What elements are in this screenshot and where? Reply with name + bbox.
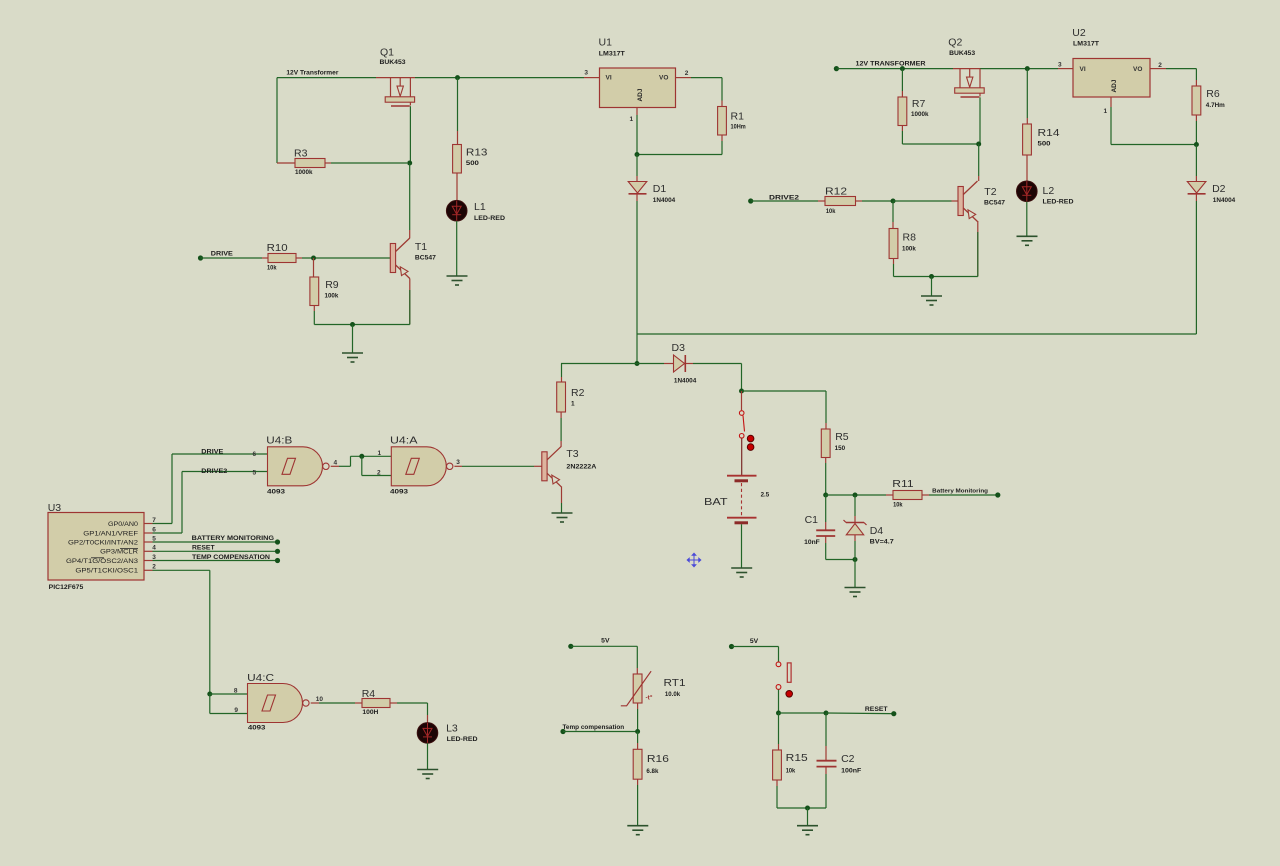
svg-text:DRIVE: DRIVE <box>211 252 233 258</box>
wire U4:C out to R4 <box>311 702 319 704</box>
svg-text:10: 10 <box>316 696 324 703</box>
node junction D4 <box>853 493 858 498</box>
resistor R6 4.7Hm <box>1192 86 1201 115</box>
node junction RT1/R16 <box>635 729 640 734</box>
svg-text:LED-RED: LED-RED <box>474 215 505 222</box>
svg-text:RESET: RESET <box>865 707 888 713</box>
svg-text:3: 3 <box>584 70 588 77</box>
svg-text:10k: 10k <box>267 264 277 271</box>
svg-text:R2: R2 <box>571 387 585 399</box>
wire U4:A out to T3 base <box>454 465 462 467</box>
pin 1 U1 ADJ <box>636 108 638 116</box>
svg-text:4.7Hm: 4.7Hm <box>1206 102 1225 109</box>
battery BAT 2.5 <box>727 475 757 477</box>
wire U3 pin2 down to U4:C <box>153 569 210 571</box>
wire R14 to L2 <box>1026 155 1028 181</box>
svg-text:R12: R12 <box>825 186 847 198</box>
svg-text:U4:C: U4:C <box>247 672 274 684</box>
ground under L1 <box>447 276 468 285</box>
svg-text:U1: U1 <box>599 37 613 49</box>
svg-text:R3: R3 <box>294 147 308 159</box>
button reset switch <box>776 662 781 667</box>
svg-text:D3: D3 <box>672 342 686 354</box>
wire D3 cathode to battery branch <box>686 363 693 365</box>
wire L3 to ground <box>427 743 429 769</box>
svg-text:10nF: 10nF <box>804 539 820 546</box>
svg-text:BUK453: BUK453 <box>380 59 406 66</box>
overline MCLR <box>120 548 138 550</box>
svg-text:R14: R14 <box>1038 127 1060 139</box>
wire node to D2 <box>1195 145 1197 177</box>
svg-text:7: 7 <box>152 517 156 524</box>
svg-text:DRIVE2: DRIVE2 <box>201 469 228 475</box>
node junction U4:C inputs <box>207 692 212 697</box>
pin 4 U3 GP3/MCLR <box>144 550 153 552</box>
pin 2 U3 GP5/T1CKI/OSC1 <box>144 569 153 571</box>
svg-text:GP4/T1G/OSC2/AN3: GP4/T1G/OSC2/AN3 <box>66 559 139 565</box>
svg-text:2: 2 <box>1158 62 1162 69</box>
transistor T1 BC547 <box>390 244 395 273</box>
wire base T2 <box>893 200 952 202</box>
node junction R12/R8 <box>891 199 896 204</box>
wire RT1 to node <box>637 703 639 709</box>
terminal DRIVE <box>198 255 203 260</box>
svg-text:3: 3 <box>456 459 460 466</box>
svg-text:2.5: 2.5 <box>761 492 770 499</box>
wire node row to R11 <box>826 494 886 496</box>
svg-text:C2: C2 <box>841 753 855 765</box>
LED L3 LED-RED <box>417 723 438 744</box>
diode D3 1N4004 <box>674 355 685 372</box>
wire L2 to ground <box>1026 202 1028 236</box>
svg-text:4093: 4093 <box>267 488 285 495</box>
svg-text:U4:A: U4:A <box>390 434 418 446</box>
svg-text:BUK453: BUK453 <box>949 50 975 57</box>
svg-text:R7: R7 <box>912 98 926 110</box>
svg-text:10k: 10k <box>786 767 796 774</box>
svg-text:5: 5 <box>152 535 156 542</box>
svg-text:R15: R15 <box>786 752 808 764</box>
node junction mid D1/R2/D3 <box>635 361 640 366</box>
wire U4:C input 8 <box>210 693 248 695</box>
wire node to C2 node <box>779 712 827 714</box>
svg-text:RESET: RESET <box>192 545 215 551</box>
svg-text:1000k: 1000k <box>295 169 313 176</box>
wire to ground D4 <box>854 560 856 588</box>
pin 6 U3 GP1/AN1/VREF <box>144 532 153 534</box>
wire battery to ground <box>741 524 743 567</box>
svg-text:6: 6 <box>253 451 257 458</box>
svg-text:8: 8 <box>234 688 238 695</box>
node junction ground D4 <box>853 557 858 562</box>
wire U4:C input 9 <box>209 694 211 714</box>
svg-text:5V: 5V <box>601 638 609 644</box>
wire Q1 gate to junction <box>409 106 411 163</box>
svg-text:LED-RED: LED-RED <box>1043 198 1074 205</box>
svg-text:2: 2 <box>685 70 689 77</box>
resistor R8 100k <box>892 201 894 222</box>
svg-text:GP3/MCLR: GP3/MCLR <box>100 550 139 556</box>
node junction R5/C1 <box>823 493 828 498</box>
op-amp U3 PIC12F675 box <box>48 513 144 581</box>
wire U3 pin3 TEMP COMPENSATION <box>153 560 278 562</box>
svg-text:L2: L2 <box>1043 185 1055 197</box>
svg-text:2: 2 <box>152 564 156 571</box>
wire U4:B out to U4:A inputs <box>331 465 339 467</box>
wire R7 to Q2 gate <box>902 143 980 145</box>
svg-text:3: 3 <box>1058 62 1062 69</box>
svg-text:GP5/T1CKI/OSC1: GP5/T1CKI/OSC1 <box>75 569 138 575</box>
wire 5V to button <box>732 646 779 648</box>
svg-text:1: 1 <box>1104 108 1108 115</box>
pin 2 U2 <box>1150 68 1166 70</box>
svg-text:VI: VI <box>606 75 612 82</box>
svg-text:T3: T3 <box>566 448 578 460</box>
svg-text:R8: R8 <box>903 232 917 244</box>
switch battery (open) <box>741 391 743 410</box>
svg-text:GP0/AN0: GP0/AN0 <box>108 522 139 528</box>
svg-text:R6: R6 <box>1206 88 1220 100</box>
pin 3 U3 GP4/T1G/OSC2/AN3 <box>144 560 153 562</box>
svg-text:Battery Monitoring: Battery Monitoring <box>932 488 988 494</box>
svg-text:4: 4 <box>152 545 156 552</box>
terminal TEMP COMPENSATION <box>275 558 280 563</box>
wire button to node <box>778 690 780 713</box>
node junction ground rail <box>805 806 810 811</box>
svg-text:R11: R11 <box>892 478 913 490</box>
terminal 5V right <box>729 644 734 649</box>
svg-text:VO: VO <box>659 75 668 82</box>
svg-text:DRIVE: DRIVE <box>201 450 223 456</box>
resistor R3 1000k <box>277 162 295 164</box>
terminal RESET <box>275 549 280 554</box>
wire gate node to T2 <box>978 144 980 176</box>
op-amp U2 LM317T box <box>1073 59 1150 98</box>
wire VO to R6 <box>1166 68 1196 70</box>
ground under L3 <box>417 770 438 779</box>
svg-text:BV=4.7: BV=4.7 <box>870 539 894 546</box>
wire to ground T2 <box>931 277 933 296</box>
wire junction to D3 <box>637 363 664 365</box>
wire junction to R5 <box>742 390 827 392</box>
wire U3 pin6 to DRIVE2 <box>153 532 183 534</box>
node junction C2 <box>824 711 829 716</box>
terminal BATTERY MONITORING <box>275 539 280 544</box>
resistor R13 500 <box>453 145 462 174</box>
ground under T2 <box>921 296 942 305</box>
wire gate node down to T1 collector <box>409 163 411 230</box>
terminal RESET right <box>891 711 896 716</box>
svg-text:ADJ: ADJ <box>637 88 644 101</box>
resistor R4 100R <box>362 699 390 708</box>
wire top node to R13 <box>455 75 460 80</box>
transistor Q2 BUK453 <box>959 69 961 88</box>
svg-text:1: 1 <box>630 116 634 123</box>
terminal 5V mid <box>568 644 573 649</box>
node junction R6/D2 <box>1194 142 1199 147</box>
svg-text:1: 1 <box>378 450 382 457</box>
wire T2 emitter down <box>977 221 979 277</box>
svg-text:R1: R1 <box>731 111 745 123</box>
node junction R3/Q1 <box>407 161 412 166</box>
svg-text:6.8k: 6.8k <box>646 768 658 775</box>
terminal Temp compensation <box>560 729 565 734</box>
svg-text:1N4004: 1N4004 <box>674 377 697 384</box>
op-amp U4:C 4093 <box>248 684 303 723</box>
wire D2 down to mid bus <box>1195 194 1197 201</box>
svg-text:R5: R5 <box>835 431 849 443</box>
svg-text:BC547: BC547 <box>984 199 1005 206</box>
svg-text:LM317T: LM317T <box>1073 41 1099 48</box>
svg-text:LED-RED: LED-RED <box>447 736 478 743</box>
svg-text:RT1: RT1 <box>664 677 686 689</box>
resistor R2 1 <box>561 364 563 378</box>
svg-text:-t°: -t° <box>646 694 653 702</box>
LED L1 LED-RED <box>446 200 467 221</box>
svg-text:Q2: Q2 <box>948 36 962 48</box>
svg-text:C1: C1 <box>805 514 819 526</box>
svg-text:ADJ: ADJ <box>1111 79 1118 92</box>
ground under T1 <box>342 353 363 362</box>
svg-text:R4: R4 <box>362 688 376 700</box>
svg-text:500: 500 <box>1038 141 1051 148</box>
wire L1 to ground <box>456 221 458 276</box>
node junction R14 <box>1025 66 1030 71</box>
wire R13 to L1 <box>456 173 458 201</box>
svg-text:R10: R10 <box>267 242 288 254</box>
svg-text:12V Transformer: 12V Transformer <box>286 71 339 77</box>
transistor T2 BC547 <box>958 187 963 216</box>
node junction R10/R9 <box>311 256 316 261</box>
svg-text:150: 150 <box>835 445 846 452</box>
wire bottom rail R8/T2 <box>894 276 978 278</box>
ground under C1/D4 <box>845 588 866 597</box>
net 12V Transformer wire <box>277 77 376 79</box>
wire VO to R1 <box>691 77 722 79</box>
wire U3 pin4 RESET <box>153 550 278 552</box>
svg-text:12V TRANSFORMER: 12V TRANSFORMER <box>856 61 927 67</box>
pin 5 U3 GP2/T0CKI/INT/AN2 <box>144 541 153 543</box>
svg-text:Temp compensation: Temp compensation <box>563 725 625 731</box>
svg-text:4093: 4093 <box>390 488 408 495</box>
svg-text:100nF: 100nF <box>841 767 861 774</box>
wire DRIVE2 to R12 <box>751 200 818 202</box>
svg-text:L1: L1 <box>474 201 486 213</box>
wire to RESET terminal <box>826 712 894 715</box>
wire T1 emitter to bottom rail <box>409 279 411 325</box>
resistor R14 500 <box>1026 69 1028 118</box>
diode D2 1N4004 <box>1187 182 1206 194</box>
resistor R10 10k <box>268 254 296 263</box>
svg-text:6: 6 <box>152 526 156 533</box>
ground under battery <box>731 568 752 577</box>
overline T1G <box>91 557 104 559</box>
resistor R5 150 <box>821 429 830 458</box>
op-amp U1 LM317T box <box>600 68 676 108</box>
wire Q2 gate down <box>979 97 981 144</box>
pin 7 U3 GP0/AN0 <box>144 523 153 525</box>
node junction ADJ/R1/D1 <box>635 152 640 157</box>
wire to ground <box>807 808 809 825</box>
svg-text:BATTERY MONITORING: BATTERY MONITORING <box>192 536 275 542</box>
ground under R15/C2 <box>797 826 818 835</box>
node junction bottom rail T2 <box>929 274 934 279</box>
wire U3 pin5 BATTERY MONITORING <box>153 541 278 543</box>
svg-text:5V: 5V <box>750 639 758 645</box>
svg-text:1N4004: 1N4004 <box>653 197 676 204</box>
wire to ground <box>352 325 354 353</box>
svg-text:VO: VO <box>1133 66 1142 73</box>
svg-text:2N2222A: 2N2222A <box>566 464 596 471</box>
thermistor RT1 10.0k <box>633 674 642 703</box>
svg-text:L3: L3 <box>446 722 458 734</box>
svg-text:D4: D4 <box>870 525 884 537</box>
switch marker dots <box>747 435 754 442</box>
wire bottom rail R9/T1 <box>314 324 410 326</box>
wire T3 emitter to ground <box>561 487 563 504</box>
wire 12V transformer rail <box>836 68 953 70</box>
pin 1 U2 ADJ <box>1110 97 1112 107</box>
resistor R11 10k <box>893 491 922 500</box>
capacitor C2 100nF <box>825 713 827 746</box>
wire Temp compensation <box>563 731 638 733</box>
wire switch to battery <box>741 438 743 475</box>
svg-text:T2: T2 <box>984 186 996 198</box>
svg-text:U4:B: U4:B <box>266 434 292 446</box>
node junction button/R15 <box>776 711 781 716</box>
svg-text:GP1/AN1/VREF: GP1/AN1/VREF <box>83 531 138 537</box>
capacitor C1 10nF <box>825 495 827 522</box>
node junction bottom rail <box>350 322 355 327</box>
svg-text:5: 5 <box>253 469 257 476</box>
wire junction to R2 corner <box>561 363 637 365</box>
svg-text:BC547: BC547 <box>415 254 436 261</box>
transistor Q1 BUK453 <box>390 78 392 97</box>
svg-text:R13: R13 <box>466 146 488 158</box>
svg-text:1: 1 <box>571 401 575 408</box>
svg-text:U3: U3 <box>48 502 62 514</box>
wire D1 down to mid bus <box>636 194 638 201</box>
svg-text:2: 2 <box>377 470 381 477</box>
svg-text:VI: VI <box>1080 66 1086 73</box>
svg-text:100k: 100k <box>902 246 916 253</box>
svg-text:PIC12F675: PIC12F675 <box>49 584 84 591</box>
LED L2 LED-RED <box>1017 181 1038 202</box>
svg-text:4: 4 <box>334 460 338 467</box>
wire R5 to node <box>825 458 827 464</box>
pin 2 U1 <box>676 77 692 79</box>
resistor R1 10Hm <box>718 107 727 136</box>
wire C1 bottom to D4 bottom <box>826 559 855 561</box>
resistor R12 10k <box>825 197 856 206</box>
wire R4 to L3 <box>390 702 397 704</box>
op-amp U4:B 4093 <box>268 447 323 486</box>
svg-text:U2: U2 <box>1072 27 1086 39</box>
wire DRIVE to R10 <box>201 257 263 259</box>
node junction R7 <box>900 66 905 71</box>
diode D4 zener BV=4.7 <box>854 495 856 516</box>
wire R1 to ADJ rail <box>721 135 723 141</box>
svg-text:500: 500 <box>466 160 479 167</box>
svg-text:100k: 100k <box>325 292 339 299</box>
wire 5V to RT1 <box>571 645 638 647</box>
svg-text:10k: 10k <box>893 502 903 509</box>
wire U3 pin7 to DRIVE <box>153 523 173 525</box>
marker origin cross <box>687 553 701 567</box>
svg-text:D2: D2 <box>1212 183 1226 195</box>
svg-text:R16: R16 <box>647 753 669 765</box>
wire ADJ rail U2 <box>1111 144 1196 146</box>
pin 3 U2 <box>1058 68 1073 70</box>
wire bottom rail R15/C2 <box>777 807 826 809</box>
svg-text:10.0k: 10.0k <box>665 691 681 698</box>
wire mid bus <box>637 333 1196 335</box>
svg-text:9: 9 <box>234 707 238 714</box>
svg-text:D1: D1 <box>653 183 667 195</box>
terminal Battery Monitoring <box>995 492 1000 497</box>
svg-text:1N4004: 1N4004 <box>1213 197 1236 204</box>
resistor R9 100k <box>313 258 315 277</box>
resistor R7 1000k <box>901 69 903 91</box>
node junction gate T2 <box>976 142 981 147</box>
svg-text:10Hm: 10Hm <box>731 124 746 131</box>
svg-text:100H: 100H <box>362 709 378 716</box>
wire ADJ node to D1 <box>636 155 638 177</box>
node junction battery/R5 <box>739 389 744 394</box>
svg-text:3: 3 <box>152 554 156 561</box>
ground under R16 <box>627 826 648 835</box>
svg-text:T1: T1 <box>415 241 427 253</box>
terminal DRIVE2 <box>748 198 753 203</box>
wire R6 to ADJ rail <box>1195 115 1197 121</box>
resistor R15 10k <box>778 713 780 744</box>
resistor R16 6.8k <box>637 732 639 744</box>
op-amp U4:A 4093 <box>391 447 446 486</box>
transistor T3 2N2222A <box>542 452 547 481</box>
svg-text:4093: 4093 <box>248 724 266 731</box>
svg-text:GP2/T0CKI/INT/AN2: GP2/T0CKI/INT/AN2 <box>68 540 139 546</box>
ground under L2 <box>1017 236 1038 245</box>
terminal 12V TRANSFORMER <box>834 66 839 71</box>
svg-text:Q1: Q1 <box>380 46 394 58</box>
ground under T3 <box>552 513 573 522</box>
svg-text:1000k: 1000k <box>911 111 929 118</box>
diode D1 1N4004 <box>628 182 647 194</box>
pin 3 U1 <box>584 77 600 79</box>
svg-text:10k: 10k <box>826 208 836 215</box>
svg-text:TEMP COMPENSATION: TEMP COMPENSATION <box>192 555 270 561</box>
svg-text:R9: R9 <box>325 279 339 291</box>
svg-text:BAT: BAT <box>704 496 728 508</box>
svg-text:LM317T: LM317T <box>599 50 625 57</box>
